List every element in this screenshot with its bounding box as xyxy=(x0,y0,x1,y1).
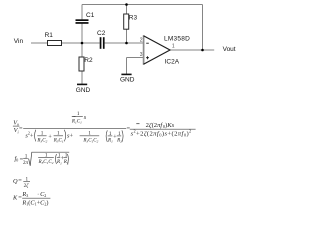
svg-text:=: = xyxy=(18,178,22,185)
junction dot top R3 xyxy=(125,3,128,6)
svg-text:K: K xyxy=(12,195,18,202)
numerator: -1/(R1C1) s xyxy=(72,116,76,118)
wire node A down to R2 xyxy=(81,43,83,57)
svg-text:3: 3 xyxy=(140,52,143,58)
svg-text:s+: s+ xyxy=(67,132,73,139)
svg-text:GND: GND xyxy=(76,87,91,94)
svg-text:=: = xyxy=(19,126,23,133)
svg-text:1: 1 xyxy=(172,44,175,50)
wire node A up to C1 xyxy=(81,5,83,20)
wire feedback top xyxy=(82,4,203,6)
equation line 1: transfer function xyxy=(13,111,196,144)
node A junction dot xyxy=(81,42,84,45)
resistor R1 xyxy=(48,41,62,46)
wire feedback right down xyxy=(202,5,204,51)
wire R3 to node B xyxy=(126,30,128,44)
svg-text:2: 2 xyxy=(140,37,143,43)
svg-text:LM358D: LM358D xyxy=(164,36,190,43)
svg-text:s2+2ζ(2πf0)s+(2πf0)2: s2+2ζ(2πf0)s+(2πf0)2 xyxy=(131,129,192,138)
wire pin 3 horizontal xyxy=(127,57,144,59)
wire top to R3 xyxy=(126,5,128,15)
svg-text:R2: R2 xyxy=(84,57,93,64)
op-amp plus input mark xyxy=(146,57,149,59)
resistor R3 xyxy=(124,14,129,29)
svg-text:R3: R3 xyxy=(129,15,138,22)
fraction 2 bar xyxy=(130,128,196,130)
svg-text:2ζ(2πf0)Ks: 2ζ(2πf0)Ks xyxy=(146,122,175,129)
wire C2 to op-amp pin 2 (node B) xyxy=(105,42,144,44)
svg-text:C2: C2 xyxy=(97,30,106,37)
resistor R2 xyxy=(79,57,84,71)
wire pin 3 down to GND xyxy=(126,58,128,75)
ground at op-amp pin 3 xyxy=(121,74,131,76)
wire R2 to GND xyxy=(81,71,83,84)
wire op-amp output xyxy=(170,49,214,51)
main fraction bar xyxy=(23,128,126,130)
op-amp minus input mark xyxy=(146,42,149,44)
svg-text:Vin: Vin xyxy=(14,38,24,45)
svg-text:GND: GND xyxy=(120,77,135,84)
ground under R2 xyxy=(77,84,87,86)
equation line 4: K formula xyxy=(12,191,50,207)
wire R1 to C2 (node A) xyxy=(62,42,100,44)
equation line 2: f0 formula xyxy=(15,152,70,166)
numerator 2: -2zeta(2 pi f0)Ks xyxy=(136,123,139,125)
svg-text:s2+: s2+ xyxy=(25,131,33,140)
svg-text:R1: R1 xyxy=(45,32,54,39)
svg-text:R3C1C2: R3C1C2 xyxy=(82,138,98,144)
radical xyxy=(29,152,70,166)
capacitor C1 xyxy=(76,19,89,21)
svg-text:2π: 2π xyxy=(23,161,29,166)
svg-text:·: · xyxy=(37,192,39,198)
equation line 3: Q formula xyxy=(13,177,30,190)
svg-text:R3C1C2: R3C1C2 xyxy=(38,159,54,165)
capacitor C2 xyxy=(100,37,102,49)
op-amp U1 triangle xyxy=(144,36,171,64)
svg-text:C1: C1 xyxy=(86,12,95,19)
svg-text:IC2A: IC2A xyxy=(165,58,180,65)
wire Vin to R1 xyxy=(31,42,48,44)
node B junction dot xyxy=(125,42,128,45)
junction dot output xyxy=(201,49,204,52)
svg-text:Vout: Vout xyxy=(223,46,236,53)
